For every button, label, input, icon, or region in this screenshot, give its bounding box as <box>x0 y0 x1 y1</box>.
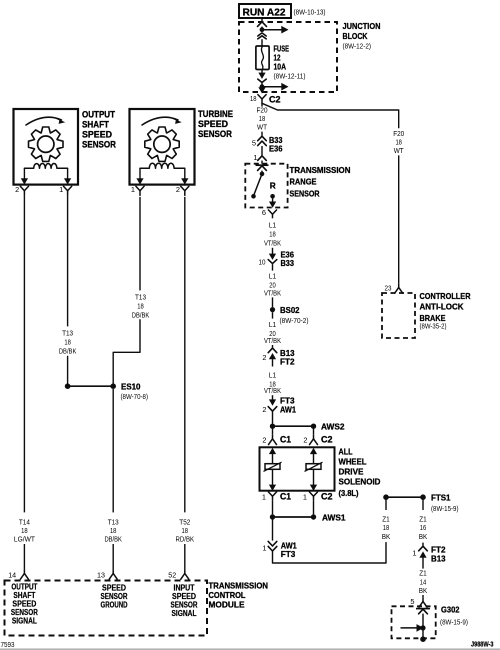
svg-text:FT2: FT2 <box>280 357 295 367</box>
svg-text:OUTPUT: OUTPUT <box>82 109 115 119</box>
svg-text:VT/BK: VT/BK <box>264 336 281 345</box>
svg-text:AWS1: AWS1 <box>322 512 346 522</box>
svg-text:23: 23 <box>385 283 392 292</box>
svg-text:WT: WT <box>257 122 267 131</box>
svg-text:L1: L1 <box>269 271 277 280</box>
svg-text:RUN A22: RUN A22 <box>243 7 286 18</box>
svg-text:5: 5 <box>252 138 256 147</box>
svg-text:2: 2 <box>303 435 307 444</box>
svg-text:C2: C2 <box>269 94 281 104</box>
svg-text:AWS2: AWS2 <box>321 422 345 432</box>
svg-text:CONTROL: CONTROL <box>209 590 246 600</box>
svg-text:BK: BK <box>419 532 428 541</box>
svg-text:(8W-70-8): (8W-70-8) <box>121 394 149 401</box>
svg-text:14: 14 <box>8 570 16 579</box>
svg-text:TRANSMISSION: TRANSMISSION <box>290 165 351 175</box>
svg-text:BLOCK: BLOCK <box>343 31 368 41</box>
svg-text:SIGNAL: SIGNAL <box>172 609 197 618</box>
svg-text:BS02: BS02 <box>280 305 300 315</box>
svg-text:52: 52 <box>168 570 176 579</box>
svg-text:VT/BK: VT/BK <box>264 288 281 297</box>
svg-text:AW1: AW1 <box>280 405 296 415</box>
svg-text:10: 10 <box>259 257 266 266</box>
svg-text:ALL: ALL <box>339 446 353 456</box>
svg-text:18: 18 <box>250 94 257 103</box>
svg-text:2: 2 <box>262 435 266 444</box>
svg-text:13: 13 <box>97 570 105 579</box>
svg-text:WT: WT <box>394 146 404 155</box>
svg-text:FT3: FT3 <box>281 549 296 559</box>
svg-text:SHAFT: SHAFT <box>82 119 109 129</box>
svg-text:C1: C1 <box>280 491 291 501</box>
svg-text:2: 2 <box>262 405 266 414</box>
svg-text:E36: E36 <box>269 144 283 154</box>
svg-text:BRAKE: BRAKE <box>420 313 446 323</box>
svg-text:SENSOR: SENSOR <box>290 189 320 199</box>
svg-text:(8W-70-2): (8W-70-2) <box>280 318 309 325</box>
svg-text:G302: G302 <box>441 605 460 615</box>
svg-text:ANTI-LOCK: ANTI-LOCK <box>420 302 464 312</box>
svg-text:T13: T13 <box>135 293 146 302</box>
svg-text:C1: C1 <box>280 434 291 444</box>
svg-text:SENSOR: SENSOR <box>198 129 232 139</box>
svg-text:2: 2 <box>262 353 266 362</box>
svg-text:SPEED: SPEED <box>198 119 228 129</box>
svg-text:BK: BK <box>382 532 391 541</box>
svg-text:1: 1 <box>131 185 135 194</box>
svg-text:18: 18 <box>137 301 144 310</box>
svg-text:2: 2 <box>176 185 180 194</box>
svg-text:(8W-15-9): (8W-15-9) <box>431 506 459 513</box>
svg-text:JUNCTION: JUNCTION <box>343 21 381 31</box>
svg-text:L1: L1 <box>269 320 277 329</box>
svg-text:6: 6 <box>262 208 266 217</box>
svg-text:7593: 7593 <box>1 640 15 649</box>
svg-text:18: 18 <box>269 229 276 238</box>
svg-text:L1: L1 <box>269 370 277 379</box>
svg-text:1: 1 <box>262 492 266 501</box>
svg-text:B13: B13 <box>431 554 446 564</box>
svg-text:T13: T13 <box>62 329 73 338</box>
svg-text:B33: B33 <box>281 258 295 268</box>
svg-text:SOLENOID: SOLENOID <box>339 476 381 486</box>
svg-text:1: 1 <box>303 492 307 501</box>
svg-text:5: 5 <box>410 597 414 606</box>
svg-text:DB/BK: DB/BK <box>132 310 150 319</box>
svg-text:RANGE: RANGE <box>290 177 317 187</box>
svg-text:LG/WT: LG/WT <box>14 535 35 544</box>
svg-text:(8W-12-2): (8W-12-2) <box>343 44 372 51</box>
svg-text:L1: L1 <box>269 220 277 229</box>
svg-text:J988W-3: J988W-3 <box>471 640 494 649</box>
svg-text:1: 1 <box>253 153 257 162</box>
svg-text:18: 18 <box>64 337 71 346</box>
svg-text:WHEEL: WHEEL <box>339 456 367 466</box>
svg-text:MODULE: MODULE <box>209 600 245 610</box>
svg-text:FTS1: FTS1 <box>431 492 451 502</box>
svg-text:CONTROLLER: CONTROLLER <box>420 291 471 301</box>
svg-text:DB/BK: DB/BK <box>104 535 122 544</box>
svg-text:(8W-12-11): (8W-12-11) <box>274 73 306 80</box>
svg-text:1: 1 <box>59 185 63 194</box>
svg-text:TRANSMISSION: TRANSMISSION <box>209 581 269 591</box>
svg-text:1: 1 <box>262 543 266 552</box>
svg-text:DRIVE: DRIVE <box>339 466 364 476</box>
svg-text:(8W-10-13): (8W-10-13) <box>294 10 326 17</box>
svg-text:16: 16 <box>420 523 427 532</box>
svg-text:1: 1 <box>412 548 416 557</box>
svg-text:VT/BK: VT/BK <box>264 239 281 248</box>
svg-text:VT/BK: VT/BK <box>264 386 281 395</box>
svg-text:RD/BK: RD/BK <box>176 535 195 544</box>
svg-text:C2: C2 <box>321 491 333 501</box>
svg-text:10A: 10A <box>274 61 287 71</box>
svg-text:SENSOR: SENSOR <box>82 139 116 149</box>
svg-text:SIGNAL: SIGNAL <box>12 617 37 626</box>
svg-text:ES10: ES10 <box>121 381 141 391</box>
svg-text:SPEED: SPEED <box>82 129 112 139</box>
svg-text:(8W-35-2): (8W-35-2) <box>420 324 447 331</box>
svg-text:(3.8L): (3.8L) <box>339 488 359 498</box>
svg-text:GROUND: GROUND <box>101 601 128 610</box>
svg-text:TURBINE: TURBINE <box>198 109 233 119</box>
svg-text:DB/BK: DB/BK <box>59 346 77 355</box>
svg-text:(8W-15-9): (8W-15-9) <box>440 620 468 627</box>
svg-text:BK: BK <box>419 586 428 595</box>
svg-text:C2: C2 <box>321 434 333 444</box>
svg-text:18: 18 <box>383 523 390 532</box>
svg-text:2: 2 <box>15 185 19 194</box>
svg-text:R: R <box>270 181 276 191</box>
